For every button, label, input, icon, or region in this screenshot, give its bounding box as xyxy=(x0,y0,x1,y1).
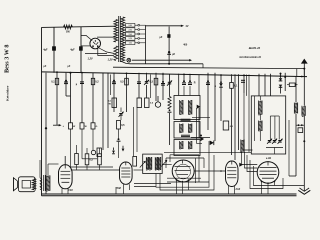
wire vert x146 xyxy=(146,73,148,98)
tube V3 internals xyxy=(121,162,130,177)
coil L3b xyxy=(189,141,192,149)
trimmer CT4 xyxy=(267,139,272,144)
tap 150V terminal xyxy=(125,32,146,36)
capacitor C5 xyxy=(112,80,116,84)
wire trimmer bottoms xyxy=(266,148,283,155)
label V6 xyxy=(266,158,272,160)
wire vert x190 xyxy=(189,74,191,96)
capacitor C4 xyxy=(76,82,84,86)
wire V3 to box C xyxy=(134,169,143,171)
wire main HT bus xyxy=(42,72,308,77)
wire V1 filament left xyxy=(85,52,107,54)
tap 220V terminal xyxy=(125,28,146,32)
resistor R14 label xyxy=(194,81,196,84)
svg-text:4V: 4V xyxy=(186,25,189,28)
label 1.2V left xyxy=(88,58,93,61)
svg-text:5A8: 5A8 xyxy=(117,187,122,190)
choke CH1 xyxy=(294,103,297,114)
choke CH2 xyxy=(302,106,305,117)
tube V1 internals xyxy=(92,40,98,47)
wire vert x70 xyxy=(70,72,72,123)
svg-text:400: 400 xyxy=(183,43,188,46)
resistor R15 xyxy=(230,83,238,89)
wire V1 anode to transformer xyxy=(81,35,116,53)
label model Bess 3 W 8 (rotated) xyxy=(4,45,11,73)
diode D9 near box D xyxy=(239,163,243,167)
label uF b xyxy=(68,66,71,68)
wire vert x304 upper xyxy=(303,69,305,106)
wire vert x249 xyxy=(248,75,250,153)
trimmer CT1 xyxy=(144,80,149,85)
wire nest V6 left a xyxy=(242,152,258,164)
resistor R19 xyxy=(85,154,93,165)
coil L1b xyxy=(189,100,192,115)
label schematic number xyxy=(249,46,261,50)
tap 125V terminal xyxy=(125,37,146,41)
resistor R18 xyxy=(75,154,79,165)
coil L5b xyxy=(150,157,152,170)
wire vert x215 xyxy=(214,73,216,141)
wire nest V4 bottom a xyxy=(156,141,209,187)
coil L2b xyxy=(189,124,192,133)
wire horiz y158.8 xyxy=(82,158,97,160)
resistor R16 box xyxy=(223,121,233,130)
trimmer CT6 xyxy=(278,139,283,144)
shield box IF1 xyxy=(174,96,200,120)
label V2 xyxy=(68,189,73,192)
tube V2 envelope xyxy=(59,165,73,189)
coil L3a xyxy=(180,141,183,149)
wire box C to V4 xyxy=(162,164,172,166)
wire V4 drops xyxy=(177,180,189,194)
svg-text:0,2: 0,2 xyxy=(95,81,99,84)
wire nest V4 top b xyxy=(166,158,204,183)
trimmer arrow D7 xyxy=(161,160,167,167)
shield box OSC xyxy=(143,154,163,173)
diode D1 arrow xyxy=(53,124,65,128)
wire vert x139 xyxy=(138,73,140,98)
arrow heater feed xyxy=(132,59,192,61)
capacitor C mains filter xyxy=(160,34,171,39)
wire heater line y63 xyxy=(133,63,203,68)
junction dot heater xyxy=(168,63,170,65)
svg-text:Bess 3 W 8: Bess 3 W 8 xyxy=(4,45,11,73)
wire nest corners left of box D xyxy=(197,108,203,143)
tube V5 internals xyxy=(227,161,236,178)
transformer TR core xyxy=(119,16,121,62)
label V3 xyxy=(117,187,122,190)
antenna symbol xyxy=(301,59,308,77)
speaker body xyxy=(18,177,35,192)
wire vert x156 xyxy=(155,73,157,101)
wire vert x93 xyxy=(92,73,94,123)
transformer TR secondary winding xyxy=(121,17,125,62)
wire vert x93 low xyxy=(92,129,94,150)
label 400 xyxy=(183,43,188,46)
wire box D inner verts xyxy=(270,116,279,140)
wire vert x118 low xyxy=(118,129,120,158)
output transformer core xyxy=(44,175,46,191)
wire y185 to earth xyxy=(280,185,305,187)
capacitor C3 xyxy=(64,80,68,84)
trimmer CT7 xyxy=(167,80,172,85)
wire corner x244 xyxy=(244,74,253,150)
box CH3 xyxy=(296,124,304,132)
wire vert x57 xyxy=(56,73,58,125)
tube V4 envelope xyxy=(172,160,194,182)
shield box IF3 xyxy=(174,140,200,156)
tube V2 internals xyxy=(61,165,71,182)
resistor R12 xyxy=(117,121,126,130)
wire long y152 xyxy=(164,151,251,153)
coil L9 xyxy=(259,121,263,132)
small box x99 xyxy=(97,148,101,157)
wire nest V6 xyxy=(250,160,283,189)
wire tap collector vertical xyxy=(145,25,147,64)
transformer TR heater winding xyxy=(114,46,118,61)
wire vert x150 xyxy=(150,75,152,99)
wire bottom border xyxy=(42,195,297,197)
capacitor C9 dot xyxy=(161,81,165,85)
wire vert x103 xyxy=(102,73,104,150)
output transformer secondary xyxy=(46,175,50,191)
capacitor C11 xyxy=(188,80,192,84)
capacitor with junction x169 xyxy=(167,51,175,56)
resistor R17 xyxy=(287,83,298,87)
resistor R1 on top bus xyxy=(64,25,73,34)
capacitor C13 xyxy=(241,75,247,96)
transformer TR primary winding xyxy=(114,20,118,43)
wire vert x108 xyxy=(107,73,109,148)
svg-text:G: G xyxy=(96,126,98,128)
dial lamp xyxy=(127,58,131,62)
wire vert x184 xyxy=(183,74,185,96)
svg-text:mit Allstromtrafo 22: mit Allstromtrafo 22 xyxy=(239,56,261,59)
tap 240V terminal xyxy=(125,23,146,27)
resistor R10 box xyxy=(137,98,142,108)
capacitor bars IF1 xyxy=(181,119,191,121)
wire nest V6 left b xyxy=(245,152,258,168)
wire vert x280 xyxy=(280,73,282,94)
wire nest V6 left c xyxy=(247,155,257,172)
label 1.2V right xyxy=(108,59,113,62)
wire V2 top xyxy=(64,156,66,165)
wire V1 to x81 xyxy=(81,45,90,47)
diode D4 if xyxy=(197,105,201,109)
speaker field coil zigzag xyxy=(32,179,35,190)
tube V4 internals xyxy=(175,160,191,182)
svg-text:Ketschker: Ketschker xyxy=(6,85,10,101)
tube V1 rectifier envelope xyxy=(90,38,101,49)
trimmer arrow D6 xyxy=(140,161,146,168)
wire transformer bottom curve xyxy=(123,62,133,64)
svg-text:Be321-22: Be321-22 xyxy=(249,46,261,50)
tube V6 envelope xyxy=(257,162,279,184)
coil L2a xyxy=(180,124,183,133)
svg-text:C18: C18 xyxy=(68,189,73,192)
wire OT to V2 xyxy=(48,163,59,165)
diode D2 xyxy=(122,146,125,152)
arrow top bus end xyxy=(181,25,189,28)
wire vert x285 xyxy=(284,73,286,91)
resistor R4 box xyxy=(69,123,77,129)
junction dot x201 xyxy=(200,135,202,137)
wire horiz y167 xyxy=(71,166,114,168)
wire if right a xyxy=(192,117,210,119)
wire link x66-x70 xyxy=(66,95,71,97)
wire vert x126 xyxy=(126,73,128,112)
wire nest V4 bottom c xyxy=(134,178,209,186)
tube V3 envelope xyxy=(120,162,133,184)
output transformer loops xyxy=(40,178,42,190)
wire vert x231 xyxy=(231,74,233,155)
tube V5 envelope xyxy=(226,161,239,187)
wire V3 drops xyxy=(116,184,130,194)
resistor R13 zigzag xyxy=(168,97,172,113)
coil L6a xyxy=(155,157,157,170)
wire vert x121 xyxy=(120,108,122,121)
wire y176 link xyxy=(289,120,296,176)
trimmer CT2 xyxy=(119,112,124,117)
capacitor C1 4uF xyxy=(43,46,56,51)
svg-text:a.Ub: a.Ub xyxy=(266,158,272,160)
wire vert x238 xyxy=(238,74,240,150)
tap 110V terminal xyxy=(125,41,146,45)
coil L1a xyxy=(180,100,183,115)
wire vert x110 xyxy=(110,75,112,96)
earth arrow xyxy=(298,188,310,194)
wire vert x137 low xyxy=(136,108,138,153)
svg-text:0,5: 0,5 xyxy=(150,81,154,84)
resistor R5 box xyxy=(80,123,88,129)
wire vert x133 low xyxy=(133,107,135,157)
wire vert x208 xyxy=(207,73,209,130)
speaker cone xyxy=(13,178,17,191)
label uF a xyxy=(44,66,47,68)
svg-text:4µF: 4µF xyxy=(70,48,75,51)
capacitor C2 4uF xyxy=(70,46,82,51)
wire vert x66 xyxy=(65,73,67,96)
wire vert x270 above xyxy=(270,74,272,96)
wire vert x304 lower xyxy=(303,116,305,191)
wire vert x82 xyxy=(81,73,83,123)
capacitor C14 circle xyxy=(91,150,95,154)
wire vert x70 low xyxy=(70,129,72,167)
wire if right b xyxy=(191,137,210,139)
capacitor C10 xyxy=(182,80,186,84)
wire V4 to V5 xyxy=(194,170,225,172)
wire nest V4 bottom b xyxy=(160,155,214,190)
svg-text:0,1: 0,1 xyxy=(51,81,55,84)
wire vert x54 xyxy=(53,27,55,73)
resistor R8 xyxy=(150,78,158,85)
capacitor C12 xyxy=(206,80,210,84)
wire vert x259 above xyxy=(258,74,260,96)
wire vert x163 xyxy=(162,73,164,100)
label subtitle xyxy=(239,56,261,59)
wire V5 drops xyxy=(229,186,235,195)
wire cluster links xyxy=(77,145,100,170)
junction dots on HT bus xyxy=(56,71,303,77)
svg-text:0,1: 0,1 xyxy=(234,84,238,87)
coil L6b xyxy=(158,157,160,170)
resistor R6 box xyxy=(91,123,98,129)
resistor R11 box xyxy=(145,98,154,108)
diode stack xyxy=(279,73,287,88)
svg-text:1,2V: 1,2V xyxy=(88,58,93,61)
wire V2 drops xyxy=(62,189,68,194)
resistor R2 xyxy=(51,78,59,84)
coil L8 xyxy=(259,101,263,116)
svg-text:0,5: 0,5 xyxy=(120,81,124,84)
resistor R20 xyxy=(98,154,102,165)
svg-text:0,5: 0,5 xyxy=(121,124,125,127)
wire box D inner left xyxy=(255,96,261,141)
diode D3 vertical xyxy=(112,148,115,154)
wire vert x46 xyxy=(45,73,47,194)
wire antenna line y67 xyxy=(113,67,305,76)
wire vert x224 xyxy=(215,74,223,121)
wire vert x235 xyxy=(234,74,236,160)
wire vert x265 above xyxy=(264,74,266,96)
coil L10 xyxy=(241,140,244,154)
wire V6 drops xyxy=(262,182,275,195)
capacitor C6 xyxy=(137,82,141,84)
capacitor C7 junction xyxy=(117,138,121,141)
wire left border xyxy=(41,27,43,195)
small box right of V3 xyxy=(133,157,137,167)
wire vert x199 xyxy=(198,75,200,96)
label publisher (rotated) xyxy=(6,85,10,101)
wire horiz y170 V2-V3 xyxy=(71,169,120,171)
svg-text:4µF: 4µF xyxy=(43,48,48,51)
resistor R9 box xyxy=(108,98,117,108)
wire vert x82 low xyxy=(81,129,83,159)
resistor R3 xyxy=(91,78,99,84)
wire vert x169 xyxy=(169,74,171,145)
wire vert x178 above xyxy=(178,74,180,96)
wire OT verticals up xyxy=(40,160,48,178)
wire vert x114 xyxy=(113,73,115,112)
capacitor C8 electrolytic xyxy=(155,96,160,107)
svg-text:1,2V: 1,2V xyxy=(108,59,113,62)
resistor R7 xyxy=(120,78,128,85)
wire top bus right segment xyxy=(146,25,181,27)
svg-text:2A3: 2A3 xyxy=(235,188,241,191)
wire V1 filament right xyxy=(98,47,114,55)
wire nest V4 top a xyxy=(170,155,199,182)
wire vert x81 xyxy=(80,27,82,73)
wire top bus xyxy=(42,26,116,27)
label V5 xyxy=(235,188,241,191)
wire vert x296 xyxy=(295,76,297,176)
svg-text:R: R xyxy=(194,81,196,84)
diode D5 xyxy=(210,141,214,146)
capacitor bars IF2 xyxy=(181,135,190,136)
shield box IF2 xyxy=(174,122,200,139)
wire mains vert x169 xyxy=(168,27,170,64)
coil L5a xyxy=(146,157,148,170)
tube V6 internals xyxy=(260,162,277,184)
wire ground bus xyxy=(42,193,297,195)
diode D8 xyxy=(201,137,205,141)
shield box BAND xyxy=(251,96,285,154)
trimmer CT5 xyxy=(272,139,277,144)
